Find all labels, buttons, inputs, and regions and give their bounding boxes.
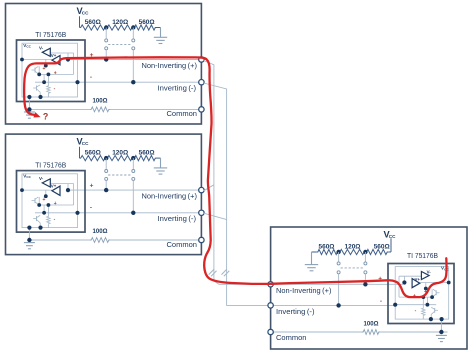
node B junction: [131, 156, 135, 160]
wire non-inverting bus: [68, 59, 199, 61]
svg-text:Inverting (-): Inverting (-): [158, 214, 197, 223]
svg-text:Common: Common: [167, 109, 198, 118]
port common: [199, 107, 204, 112]
wire non-inverting bus node3: [273, 283, 403, 285]
svg-text:560Ω: 560Ω: [85, 150, 102, 157]
svg-text:560Ω: 560Ω: [85, 19, 102, 26]
svg-text:100Ω: 100Ω: [93, 228, 108, 235]
resistor 560 ohm R-term1: [80, 156, 107, 161]
chip internals: [22, 174, 78, 228]
svg-text:V-: V-: [39, 176, 44, 181]
wire node2 non-inverting stub: [204, 185, 214, 191]
chip internals: [22, 43, 78, 97]
resistor 560 ohm R-term2: [133, 25, 156, 30]
node 1 outer box: [6, 4, 202, 125]
resistor 560 ohm node3-b: [365, 249, 388, 254]
node A junction node3: [336, 250, 340, 254]
jumper column A: [105, 158, 107, 169]
svg-text:V-: V-: [39, 46, 44, 51]
jumper column B node3: [364, 252, 366, 262]
port common node3: [268, 329, 273, 334]
RS-485 node 1: [6, 4, 205, 125]
node B junction node3: [363, 250, 367, 254]
jumper column A: [105, 28, 107, 39]
node A junction: [104, 156, 108, 160]
chip TI 75176B box: [17, 171, 86, 233]
svg-text:100Ω: 100Ω: [93, 98, 108, 105]
svg-text:CC: CC: [389, 234, 396, 239]
svg-text:560Ω: 560Ω: [139, 19, 156, 26]
jumper dashed link node3: [341, 267, 364, 269]
svg-text:V-: V-: [427, 269, 432, 274]
svg-text:V+: V+: [415, 277, 421, 282]
resistor 100 ohm: [90, 238, 110, 243]
jumper dashed link: [108, 43, 131, 45]
svg-text:Non-Inverting (+): Non-Inverting (+): [142, 61, 198, 70]
jumper column A node3: [338, 252, 340, 262]
svg-text:CC: CC: [26, 45, 31, 49]
wire node2 inverting stub: [204, 213, 227, 219]
svg-text:TI 75176B: TI 75176B: [407, 253, 438, 260]
RS-485 node 2: [6, 134, 205, 255]
ground (chip node3): [440, 324, 442, 333]
wire common bus node3: [273, 331, 362, 333]
svg-text:-: -: [90, 74, 92, 81]
wire inverting bus: [78, 212, 199, 214]
resistor 100 ohm: [90, 107, 110, 112]
node 1 outer box: [6, 134, 202, 255]
svg-text:+: +: [54, 71, 57, 77]
svg-text:+: +: [43, 66, 46, 72]
port inverting node3: [268, 303, 273, 308]
wire inverting bus node3: [273, 304, 395, 306]
svg-text:+: +: [54, 201, 57, 207]
resistor 120 ohm: [106, 156, 133, 161]
ground (termination): [157, 157, 161, 159]
svg-text:120Ω: 120Ω: [112, 150, 129, 157]
jumper column B: [132, 158, 134, 169]
resistor 120 ohm node3: [339, 249, 366, 254]
svg-text:Non-Inverting (+): Non-Inverting (+): [142, 192, 198, 201]
port non-inverting: [199, 187, 204, 192]
node A junction: [104, 25, 108, 29]
ground (termination): [157, 27, 161, 29]
wire common bus: [29, 108, 90, 110]
svg-text:Inverting (-): Inverting (-): [158, 83, 197, 92]
svg-text:-: -: [90, 204, 92, 211]
resistor 560 ohm R-term1: [80, 25, 107, 30]
resistor 100 ohm node3: [362, 330, 380, 335]
resistor 560 ohm node3-a: [317, 249, 339, 254]
svg-text:560Ω: 560Ω: [139, 150, 156, 157]
svg-text:CC: CC: [82, 141, 89, 146]
svg-text:100Ω: 100Ω: [364, 320, 379, 327]
chip internals node3: [395, 267, 449, 320]
port inverting: [199, 80, 204, 85]
wire common bus: [29, 239, 90, 241]
port inverting: [199, 210, 204, 215]
svg-text:V+: V+: [51, 53, 57, 58]
svg-text:+: +: [90, 183, 94, 190]
svg-text:Common: Common: [167, 240, 198, 249]
jumper column B: [132, 28, 134, 39]
wire non-inverting bus: [68, 189, 199, 191]
svg-text:-: -: [380, 298, 382, 305]
svg-text:+: +: [43, 197, 46, 203]
wire non-inverting trunk: [204, 61, 268, 285]
svg-text:V+: V+: [51, 184, 57, 189]
port common: [199, 237, 204, 242]
svg-text:Inverting (-): Inverting (-): [276, 307, 315, 316]
svg-text:560Ω: 560Ω: [319, 243, 336, 250]
svg-text:?: ?: [43, 111, 48, 121]
svg-text:Non-Inverting (+): Non-Inverting (+): [276, 286, 332, 295]
ground (chip): [28, 102, 30, 110]
chip TI 75176B box node3: [388, 264, 454, 324]
port non-inverting node3: [268, 282, 273, 287]
svg-text:120Ω: 120Ω: [112, 19, 129, 26]
chip TI 75176B box: [17, 40, 86, 102]
port non-inverting: [199, 57, 204, 62]
node B junction: [131, 25, 135, 29]
svg-text:CC: CC: [82, 10, 89, 15]
jumper dashed link: [108, 174, 131, 176]
wire inverting trunk: [204, 83, 268, 305]
svg-text:Common: Common: [276, 333, 307, 342]
svg-text:560Ω: 560Ω: [374, 243, 391, 250]
resistor 560 ohm R-term2: [133, 156, 156, 161]
ground (chip): [28, 232, 30, 240]
svg-text:CC: CC: [26, 175, 31, 179]
resistor 120 ohm: [106, 25, 133, 30]
ground (termination node3): [312, 251, 317, 253]
RS-485 node 3 outer box: [271, 227, 467, 349]
svg-text:TI 75176B: TI 75176B: [35, 32, 66, 39]
svg-text:TI 75176B: TI 75176B: [35, 162, 66, 169]
cable break marks: [209, 269, 214, 275]
svg-text:120Ω: 120Ω: [345, 243, 362, 250]
red current path: [24, 57, 446, 297]
red arrowhead: [33, 112, 40, 117]
wire inverting bus: [78, 81, 199, 83]
